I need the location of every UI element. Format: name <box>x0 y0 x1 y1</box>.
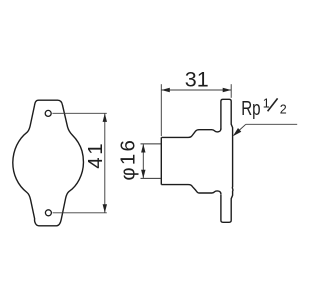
svg-text:41: 41 <box>84 141 107 169</box>
svg-text:φ16: φ16 <box>116 138 139 181</box>
svg-text:1: 1 <box>263 96 270 110</box>
svg-text:2: 2 <box>280 102 287 116</box>
svg-text:Rp: Rp <box>241 97 260 120</box>
svg-text:31: 31 <box>185 68 209 92</box>
